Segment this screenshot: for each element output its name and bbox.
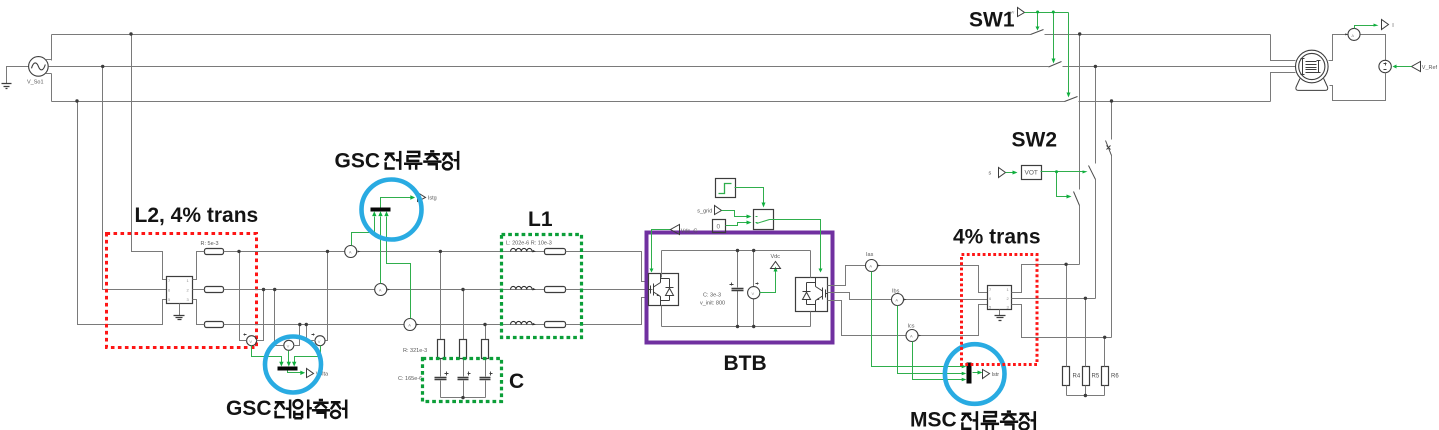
switch SW2-c blade xyxy=(1106,141,1112,156)
wire L1a out to BTB xyxy=(566,252,649,282)
arrow SW1 c xyxy=(1067,93,1071,98)
svg-text:1: 1 xyxy=(187,278,190,283)
plus mark V2 xyxy=(281,338,284,341)
controlled source E1 xyxy=(1379,60,1391,72)
svg-text:Vdc_G: Vdc_G xyxy=(681,228,698,234)
arrow gate U2 xyxy=(819,269,823,273)
node phase C x306.3 xyxy=(305,323,308,326)
node green SW1 a xyxy=(1036,11,1039,14)
wire green step to switch xyxy=(735,188,764,203)
wire branch a down xyxy=(440,252,442,398)
probe label triangle Istg xyxy=(418,193,426,202)
svg-text:V: V xyxy=(752,291,755,296)
igbt U1 symbol xyxy=(649,274,670,306)
SECTION: SW2 drops xyxy=(1074,35,1112,338)
wire L1c out to BTB xyxy=(566,298,649,325)
plus mark dc cap xyxy=(730,283,734,286)
step source block xyxy=(716,179,736,198)
svg-text:7: 7 xyxy=(989,287,992,292)
mux bar (voltage) xyxy=(278,367,298,371)
node dc rail vm top xyxy=(752,249,755,252)
wire U2 out c xyxy=(828,301,988,336)
svg-text:A: A xyxy=(895,298,898,303)
svg-text:A: A xyxy=(379,288,382,293)
wire xfmr pin1 to resistor Ra xyxy=(193,252,205,280)
wire top bus xyxy=(52,34,1031,36)
svg-text:C: 165e-6: C: 165e-6 xyxy=(398,376,422,382)
voltmeter V2 xyxy=(284,340,294,350)
switch SW1-c on bottom bus xyxy=(1065,97,1078,102)
svg-text:C: C xyxy=(509,370,524,393)
probe triangle Vdc_G xyxy=(671,225,680,235)
ammeter Ics xyxy=(906,330,918,342)
inductor L1a xyxy=(510,251,545,253)
svg-text:2: 2 xyxy=(1007,296,1010,301)
capacitor C1c xyxy=(480,378,491,380)
svg-text:V_So1: V_So1 xyxy=(27,80,44,86)
node neutral mid xyxy=(1084,394,1087,397)
voltmeter V1 xyxy=(247,336,257,346)
wire green s_grid to switch xyxy=(722,211,747,217)
svg-text:L: 202e-6 R: 10e-3: L: 202e-6 R: 10e-3 xyxy=(506,241,552,247)
box 4% trans red dotted xyxy=(962,255,1038,365)
probe triangle sw2-src xyxy=(999,168,1006,178)
wire drop phase-a (x=131 from top bus) xyxy=(132,35,167,280)
wire green SW1 drop b xyxy=(1053,13,1055,59)
node phase A x327.5 xyxy=(326,250,329,253)
dc-link capacitor branch xyxy=(737,251,739,327)
node green SW1 b xyxy=(1052,11,1055,14)
arrow into vmux 1 xyxy=(279,362,283,367)
wire U2 out b xyxy=(828,293,988,300)
dc-link capacitor plates xyxy=(732,289,744,291)
resistor R6 xyxy=(1102,367,1109,386)
wire green V_Ref xyxy=(1397,66,1412,68)
wire V1 right to phase B xyxy=(257,290,264,341)
node top bus x131 xyxy=(129,32,132,35)
probe triangle V_Ref xyxy=(1412,62,1421,72)
ground under transformer xyxy=(179,304,181,316)
box BTB purple xyxy=(647,233,833,343)
svg-text:SW1: SW1 xyxy=(969,9,1015,32)
arrow V_Ref left xyxy=(1393,65,1397,69)
arrow I probe xyxy=(1374,24,1379,27)
wire green Vdc probe xyxy=(760,271,776,293)
node phase A x239 xyxy=(237,250,240,253)
plus mark V1 xyxy=(244,334,247,336)
svg-text:R: 321e-3: R: 321e-3 xyxy=(403,348,427,354)
svg-text:s_grid: s_grid xyxy=(697,209,712,215)
node R6 tap xyxy=(1103,336,1106,339)
svg-text:0: 0 xyxy=(717,224,721,231)
switch blade inside xyxy=(757,220,773,224)
wire V2 left to phase B xyxy=(275,290,284,346)
wire drop c from bottom bus xyxy=(1111,102,1113,338)
transformer T2 box xyxy=(988,286,1012,310)
wire source to bottom bus stub xyxy=(46,74,52,102)
SECTION: GSC voltmeters xyxy=(240,252,328,351)
arrow msc mux out xyxy=(978,371,983,375)
wire U2 out a xyxy=(828,266,988,293)
svg-text:Vdc: Vdc xyxy=(771,254,781,260)
SECTION: MSC current probe xyxy=(872,272,979,380)
arrow vmux out xyxy=(300,371,305,375)
wire T2 out b xyxy=(1012,298,1096,300)
svg-text:V: V xyxy=(318,339,321,344)
wire green V2 to mux xyxy=(288,351,290,363)
wire green imux out xyxy=(381,198,412,208)
node phase B x274.7 xyxy=(273,288,276,291)
plus minus marks E1 xyxy=(1384,63,1387,70)
ammeter Ibs xyxy=(892,294,904,306)
transformer T1 box xyxy=(167,277,193,304)
resistor L1-Rb xyxy=(545,287,566,293)
SECTION: machine and measurement loop xyxy=(1296,28,1392,100)
SECTION: transformer L2 xyxy=(167,249,224,328)
node phase B x463 xyxy=(461,288,464,291)
svg-text:VOT: VOT xyxy=(1025,170,1038,177)
svg-text:7: 7 xyxy=(168,278,171,283)
node phase C x299.8 xyxy=(298,323,301,326)
svg-text:BTB: BTB xyxy=(724,352,767,375)
svg-text:V: V xyxy=(287,343,290,348)
SECTION: left source and buses xyxy=(2,30,1296,102)
wire bottom bus to machine xyxy=(1271,73,1296,102)
arrow to SW2-a xyxy=(1067,195,1072,199)
svg-text:Istg: Istg xyxy=(428,196,437,202)
marker blue circle (MSC current) xyxy=(945,344,1005,404)
arrow into imux 1 xyxy=(372,211,376,216)
wire U2 dc stubs xyxy=(810,251,812,327)
wire drop b from middle bus xyxy=(1095,67,1097,299)
svg-text:R5: R5 xyxy=(1092,374,1100,380)
mux bar (GSC current) xyxy=(371,208,391,212)
SECTION: MSC output wires and ammeters xyxy=(828,260,988,342)
machine IM inner xyxy=(1299,53,1325,79)
wire green gate U1 xyxy=(652,230,671,269)
switch contacts inside xyxy=(756,217,758,223)
box C green dotted xyxy=(423,359,502,402)
plus mark C1b xyxy=(468,372,471,376)
SECTION: MSC transformer xyxy=(988,265,1112,396)
dc voltmeter V4 xyxy=(748,287,760,299)
wire V3 right to phase A xyxy=(326,252,328,341)
wire green mux out xyxy=(288,371,302,373)
wire T2 out c xyxy=(1012,305,1112,338)
switch SW2-c cross mark xyxy=(1107,146,1111,150)
arrow imux out xyxy=(410,195,415,199)
VOT block xyxy=(1022,166,1042,180)
svg-text:Ias: Ias xyxy=(866,252,874,258)
wire green A1 to imux xyxy=(352,217,375,246)
arrow gate U1 xyxy=(650,269,654,273)
wire drop phase-c (x=77 from bottom bus) xyxy=(78,102,167,325)
svg-text:R: 5e-3: R: 5e-3 xyxy=(201,241,219,247)
svg-text:Ics: Ics xyxy=(908,323,915,329)
resistor R1b vertical xyxy=(460,340,467,359)
wire L1b out to BTB xyxy=(566,289,653,291)
wire R4 branch xyxy=(1066,265,1068,396)
arrow s_grid to switch xyxy=(747,215,752,219)
probe triangle s_grid xyxy=(715,206,722,215)
node bottom bus x77 xyxy=(75,99,78,102)
converter U2 (MSC) box xyxy=(796,278,828,312)
svg-text:R4: R4 xyxy=(1073,374,1081,380)
wire green switch to U2 gate xyxy=(773,220,821,269)
wire R5 branch xyxy=(1085,299,1087,396)
SECTION: three phase wires to L1 with meters xyxy=(224,246,510,331)
wire green A3 to imux xyxy=(387,217,411,319)
wire green Ics to mux xyxy=(913,342,963,380)
wire bottom bus xyxy=(52,101,1065,103)
switch block xyxy=(754,210,774,230)
node bottom bus x1111.5 xyxy=(1110,99,1113,102)
switch SW2-b blade xyxy=(1089,166,1096,180)
switch SW2-a blade xyxy=(1074,192,1080,206)
node dc rail cap top xyxy=(736,249,739,252)
machine IM outer xyxy=(1296,50,1329,83)
mux bar (MSC current) xyxy=(967,363,972,384)
wire green 0 to switch xyxy=(726,223,747,226)
wire xfmr pin3 to resistor Rc xyxy=(193,300,205,325)
machine winding coil xyxy=(1306,62,1317,73)
resistor R5 xyxy=(1083,367,1090,386)
wire U1 dc stubs xyxy=(662,251,811,327)
plus mark C1c xyxy=(490,372,493,376)
resistor L1-Ra xyxy=(545,249,566,255)
wire green SW1 bus xyxy=(1025,12,1069,14)
svg-text:3: 3 xyxy=(187,297,190,302)
SECTION: L1 filter xyxy=(510,248,653,327)
svg-text:6: 6 xyxy=(989,296,992,301)
svg-text:6: 6 xyxy=(168,288,171,293)
wire R6 branch xyxy=(1104,338,1106,396)
switch SW1-b on middle bus xyxy=(1049,62,1062,68)
wire branch b down xyxy=(463,290,465,398)
svg-text:L2, 4% trans: L2, 4% trans xyxy=(135,204,259,227)
arrow into msc mux 3 xyxy=(962,378,967,382)
marker blue circle (GSC current) xyxy=(362,180,422,240)
wire U1 top to dc rail xyxy=(662,251,811,278)
probe triangle Vdc xyxy=(771,262,781,269)
plus mark V4 xyxy=(756,283,759,285)
arrow into VOT xyxy=(1013,171,1018,175)
plus mark V3 xyxy=(312,334,315,336)
wire green V1 to mux xyxy=(252,346,282,363)
machine stand xyxy=(1296,79,1328,91)
SECTION: GSC voltage probe (mux + label) xyxy=(252,346,321,373)
diode U2a xyxy=(803,292,811,300)
arrow to SW2-b xyxy=(1083,171,1088,174)
svg-text:A: A xyxy=(349,250,352,255)
probe triangle I xyxy=(1382,20,1389,30)
wire source loop bottom xyxy=(1330,73,1386,101)
resistor Ra (L2 top) xyxy=(205,249,224,255)
resistor R4 xyxy=(1063,367,1070,386)
resistor R1c vertical xyxy=(482,340,489,359)
arrow SW1 b xyxy=(1052,59,1056,64)
capacitor C1a xyxy=(435,378,447,380)
node dc rail cap bottom xyxy=(736,325,739,328)
svg-text:A: A xyxy=(1351,33,1354,38)
node middle bus x1095.4 xyxy=(1094,65,1097,68)
svg-text:V: V xyxy=(249,339,252,344)
step waveform inside xyxy=(719,184,732,194)
wire green branch to SW2-a xyxy=(1057,172,1067,197)
marker blue circle (GSC voltage) xyxy=(265,337,321,393)
switch SW1-a on top bus xyxy=(1031,30,1044,35)
wire cap bottom bus xyxy=(441,397,486,399)
svg-text:3: 3 xyxy=(1007,305,1010,310)
svg-text:5: 5 xyxy=(168,297,171,302)
svg-text:I: I xyxy=(1392,23,1394,29)
wire green I probe xyxy=(1355,26,1374,29)
wire green Ibs to mux xyxy=(898,306,963,374)
SECTION: GSC current probe xyxy=(352,198,412,319)
resistor R1a vertical xyxy=(438,340,445,359)
node phase C x485 xyxy=(483,323,486,326)
machine winding left bar xyxy=(1301,59,1305,75)
ammeter A1 xyxy=(345,246,357,258)
arrow Vdc up xyxy=(774,267,778,272)
svg-text:C: 3e-3: C: 3e-3 xyxy=(703,293,721,299)
arrow step to switch xyxy=(762,203,766,208)
svg-text:MSC: MSC xyxy=(910,409,957,430)
machine winding right bar xyxy=(1317,61,1321,73)
node cap bottom xyxy=(461,396,464,399)
svg-text:R6: R6 xyxy=(1111,374,1119,380)
svg-text:Istr: Istr xyxy=(992,372,1000,378)
box L2 red dotted xyxy=(107,234,257,348)
node dc rail vm bottom xyxy=(752,325,755,328)
arrow into vmux 3 xyxy=(292,362,296,367)
wire green msc mux out xyxy=(973,372,979,374)
wire top bus to machine xyxy=(1271,35,1296,61)
node R5 tap xyxy=(1084,297,1087,300)
inductor L1b xyxy=(510,289,545,291)
ground under T2 xyxy=(999,310,1001,316)
node middle bus x102.7 xyxy=(101,65,104,68)
arrow into msc mux 2 xyxy=(962,372,967,376)
svg-text:GSC: GSC xyxy=(226,397,272,420)
probe triangle SW1-src xyxy=(1018,8,1025,17)
diode U1a xyxy=(666,288,674,296)
wire T2 out a xyxy=(1012,265,1080,293)
wire phase B (resistor to L1) xyxy=(224,289,510,291)
svg-text:SW2: SW2 xyxy=(1012,128,1058,151)
wire green A2 to imux xyxy=(380,217,382,284)
svg-text:GSC: GSC xyxy=(335,149,381,172)
node R4 tap xyxy=(1064,263,1067,266)
node phase B x263.5 xyxy=(262,288,265,291)
svg-text:4% trans: 4% trans xyxy=(953,226,1041,249)
node green VOT branch xyxy=(1055,170,1058,173)
wire green SW1 drop a xyxy=(1037,13,1039,27)
svg-text:5: 5 xyxy=(989,305,992,310)
ground (left of source) xyxy=(7,67,29,84)
const 0 block xyxy=(713,220,726,233)
arrow SW1 a xyxy=(1036,27,1040,31)
arrow into vmux 2 xyxy=(287,362,291,367)
voltmeter V3 xyxy=(315,336,325,346)
wire green sw2 src to VOT xyxy=(1006,172,1013,174)
wire green Ias to mux xyxy=(872,272,963,367)
wire V2 right to phase C xyxy=(294,325,300,346)
wire drop a from top bus xyxy=(1079,35,1081,265)
box L1 green dotted xyxy=(502,235,582,338)
resistor Rc (L2 bottom) xyxy=(205,322,224,328)
wire phase A (resistor to L1) xyxy=(224,251,510,253)
wire machine to ammeter loop xyxy=(1329,35,1349,61)
SECTION: RC filter branches xyxy=(435,252,493,398)
wire load neutral xyxy=(1067,395,1105,397)
wire source to top bus stub xyxy=(46,35,52,61)
svg-text:2: 2 xyxy=(187,288,190,293)
svg-text:1: 1 xyxy=(1007,287,1010,292)
resistor L1-Rc xyxy=(545,322,566,328)
arrow into imux 3 xyxy=(384,211,388,216)
ammeter A3 xyxy=(404,319,416,331)
probe label triangle Volta xyxy=(307,369,314,378)
wire ammeter to source loop xyxy=(1361,35,1386,61)
arrow into imux 2 xyxy=(378,211,382,216)
converter U1 (GSC) box xyxy=(649,274,679,306)
SECTION: BTB gating control xyxy=(713,179,774,233)
wire drop phase-b (x=102.7 from middle bus) xyxy=(103,67,167,290)
svg-text:s: s xyxy=(989,171,992,177)
wire V3 left to phase C xyxy=(307,325,316,341)
dc voltmeter V4 branch xyxy=(753,251,755,327)
ammeter Ias xyxy=(866,260,878,272)
svg-text:A: A xyxy=(910,334,913,339)
capacitor C1b xyxy=(458,378,469,380)
probe label triangle Istr xyxy=(983,370,990,379)
wire phase C (resistor to L1) xyxy=(224,324,510,326)
svg-text:v_init: 800: v_init: 800 xyxy=(700,301,725,307)
wire green VOT to SW2-b xyxy=(1041,171,1083,173)
wire green V3 to mux xyxy=(295,346,321,363)
inductor L1c xyxy=(510,324,545,326)
svg-text:V_Ref: V_Ref xyxy=(1422,65,1438,71)
igbt U2 symbol xyxy=(807,278,828,312)
svg-text:Ibs: Ibs xyxy=(892,288,900,294)
svg-text:A: A xyxy=(869,264,872,269)
node phase A x440 xyxy=(439,250,442,253)
wire middle bus xyxy=(49,66,1049,68)
resistor Rb (L2 mid) xyxy=(205,287,224,293)
wire V1 left to phase A xyxy=(240,252,247,341)
svg-text:A: A xyxy=(408,323,411,328)
SECTION: drops to transformer L2 xyxy=(78,35,167,325)
arrow 0 to switch xyxy=(747,221,752,225)
AC source V_So1 xyxy=(29,57,49,77)
node top bus x1079.7 xyxy=(1078,32,1081,35)
wire xfmr pin2 to resistor Rb xyxy=(193,289,205,291)
arrow into msc mux 1 xyxy=(962,365,967,369)
ammeter A-load xyxy=(1348,28,1360,40)
svg-text:L1: L1 xyxy=(528,208,553,231)
wire branch c down xyxy=(485,325,487,398)
wire green SW1 drop c xyxy=(1068,13,1070,93)
ammeter A2 xyxy=(375,284,387,296)
plus mark C1a xyxy=(445,372,449,376)
